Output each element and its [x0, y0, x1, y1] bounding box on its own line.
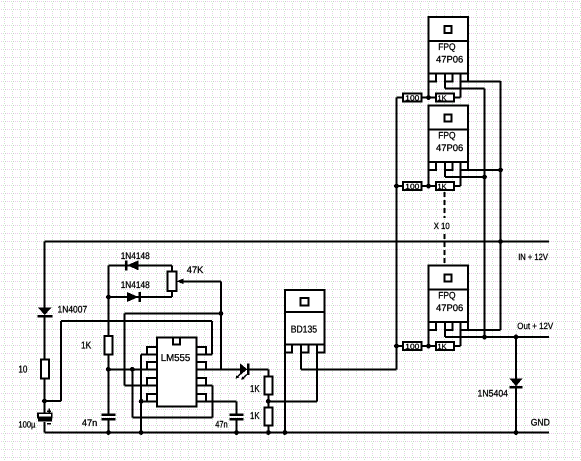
node ctrl cap gnd	[234, 430, 239, 435]
svg-text:Out + 12V: Out + 12V	[517, 321, 553, 331]
wire Q2 drain	[445, 82, 485, 89]
wire IN +12V top bus	[45, 241, 550, 243]
op-amp U1 LM555 timer IC	[147, 337, 206, 406]
node supply/cap junction	[42, 399, 47, 404]
node stage2 gate bus	[394, 184, 399, 189]
wire Q3 drain	[445, 170, 485, 177]
node 47n-gnd	[106, 430, 111, 435]
wire 555 output row	[125, 281, 221, 385]
wire Q2 source	[461, 81, 501, 83]
capacitor C 47n right	[230, 415, 244, 433]
resistor 1K led upper	[265, 376, 273, 407]
wire BD135 collector to gate bus	[301, 353, 397, 370]
svg-text:1K: 1K	[438, 182, 447, 191]
node divider gnd	[266, 430, 271, 435]
svg-text:47P06: 47P06	[436, 303, 463, 314]
transistor Q4 FPQ 47P06	[429, 266, 469, 331]
wire BD135 emitter to gnd	[284, 353, 286, 433]
wire Q3 source	[461, 169, 501, 171]
node timing cap junction	[106, 367, 111, 372]
resistor 10	[41, 360, 49, 414]
wire Out +12V line	[445, 336, 549, 338]
wire left supply drop	[44, 242, 46, 308]
wire Q3 gate drop	[428, 170, 430, 186]
resistor 100 Q4	[397, 342, 429, 350]
node stage2 source bus	[498, 168, 503, 173]
wire stage3 source link	[461, 329, 501, 331]
svg-text:GND: GND	[531, 418, 550, 429]
node 1N5404 gnd	[514, 430, 519, 435]
node source bus / IN line	[498, 239, 503, 244]
node A vertical with 1K and 47n	[107, 265, 109, 336]
node emitter gnd	[282, 430, 287, 435]
wire diode row 1	[108, 264, 171, 266]
svg-text:1N4148: 1N4148	[121, 251, 150, 262]
wire Q4 source	[461, 329, 501, 331]
svg-text:1K: 1K	[250, 384, 260, 395]
svg-text:100: 100	[405, 94, 419, 103]
svg-text:47n: 47n	[82, 418, 97, 429]
label FPQ 47P06 Q4	[436, 291, 463, 315]
wire 555 trigger/threshold row	[108, 368, 147, 370]
svg-text:X 10: X 10	[434, 221, 450, 231]
wire Q4 gate drop	[428, 330, 430, 346]
wire trig to thres loop	[132, 369, 212, 417]
resistor 1K timing	[104, 336, 112, 414]
node out line / diode	[514, 335, 519, 340]
node Q3 gate junction	[426, 184, 431, 189]
wire Q2 gate drop	[428, 82, 430, 98]
node drain bus / out line	[482, 335, 487, 340]
svg-text:1K: 1K	[438, 342, 447, 351]
svg-text:100µ: 100µ	[18, 420, 35, 430]
wire Q4 drain	[444, 330, 446, 337]
svg-text:1N5404: 1N5404	[478, 389, 509, 400]
svg-text:1N4148: 1N4148	[121, 280, 150, 291]
diode D 1N4007	[38, 308, 53, 360]
node output/wiper	[219, 311, 224, 316]
node Q4 gate junction	[426, 344, 431, 349]
node stage3 gate bus	[394, 344, 399, 349]
LED indicator	[236, 363, 269, 380]
wire GND bottom bus	[45, 432, 550, 434]
resistor 1K Q2	[429, 82, 461, 102]
resistor 1K Q4	[429, 330, 461, 350]
svg-text:10: 10	[18, 365, 27, 376]
wire 555 gnd/reset pins	[141, 355, 147, 433]
svg-text:1K: 1K	[81, 341, 92, 352]
capacitor C 100u electrolytic	[38, 409, 52, 433]
wire source bus (+12V in)	[500, 81, 502, 330]
wire drain bus (out)	[484, 89, 486, 337]
diode D 1N4148 upper (pointing left)	[126, 260, 139, 270]
wire control cap row	[206, 401, 237, 413]
node trig branch	[130, 367, 135, 372]
diode D 1N5404	[510, 337, 523, 433]
node reset-gnd	[139, 399, 144, 404]
svg-text:47K: 47K	[187, 265, 204, 276]
svg-text:FPQ: FPQ	[438, 42, 455, 53]
node Q2 gate junction	[426, 95, 431, 100]
wire Vcc feed to 555	[45, 321, 212, 401]
node divider junction	[266, 399, 271, 404]
svg-text:FPQ: FPQ	[438, 131, 455, 142]
resistor 1K led lower	[265, 407, 273, 432]
label FPQ 47P06 Q2	[436, 42, 463, 66]
svg-text:100: 100	[405, 342, 419, 351]
potentiometer 47K	[167, 265, 221, 297]
svg-text:1N4007: 1N4007	[58, 305, 88, 316]
svg-text:BD135: BD135	[291, 324, 318, 335]
svg-text:FPQ: FPQ	[438, 291, 455, 302]
diode D 1N4148 lower (pointing right)	[127, 292, 140, 302]
node diode junction	[106, 295, 111, 300]
transistor Q2 FPQ 47P06	[429, 17, 469, 82]
transistor Q3 FPQ 47P06	[429, 106, 469, 171]
wire diode row 2	[108, 296, 171, 298]
svg-text:IN + 12V: IN + 12V	[518, 252, 548, 262]
wire base feed	[268, 400, 317, 402]
wire BD135 base	[316, 353, 318, 402]
svg-text:1K: 1K	[438, 94, 447, 103]
svg-text:47P06: 47P06	[436, 55, 463, 66]
resistor 100 Q2	[397, 94, 429, 102]
wire LED to divider	[267, 369, 269, 376]
svg-text:LM555: LM555	[161, 353, 191, 364]
node stage2 drain bus	[482, 175, 487, 180]
node gnd bus 555	[139, 430, 144, 435]
wire gate drive bus	[396, 98, 398, 370]
svg-text:100: 100	[405, 182, 419, 191]
resistor 1K Q3	[429, 170, 461, 190]
svg-text:1K: 1K	[250, 411, 260, 422]
resistor 100 Q3	[397, 182, 429, 190]
transistor Q1 BD135	[285, 290, 325, 353]
capacitor C 47n left	[101, 415, 115, 433]
wire repeated-stage dashed line	[443, 192, 445, 265]
wire output to LED	[206, 368, 240, 370]
label FPQ 47P06 Q3	[436, 131, 463, 155]
svg-text:47P06: 47P06	[436, 143, 463, 154]
svg-text:47n: 47n	[215, 420, 227, 431]
